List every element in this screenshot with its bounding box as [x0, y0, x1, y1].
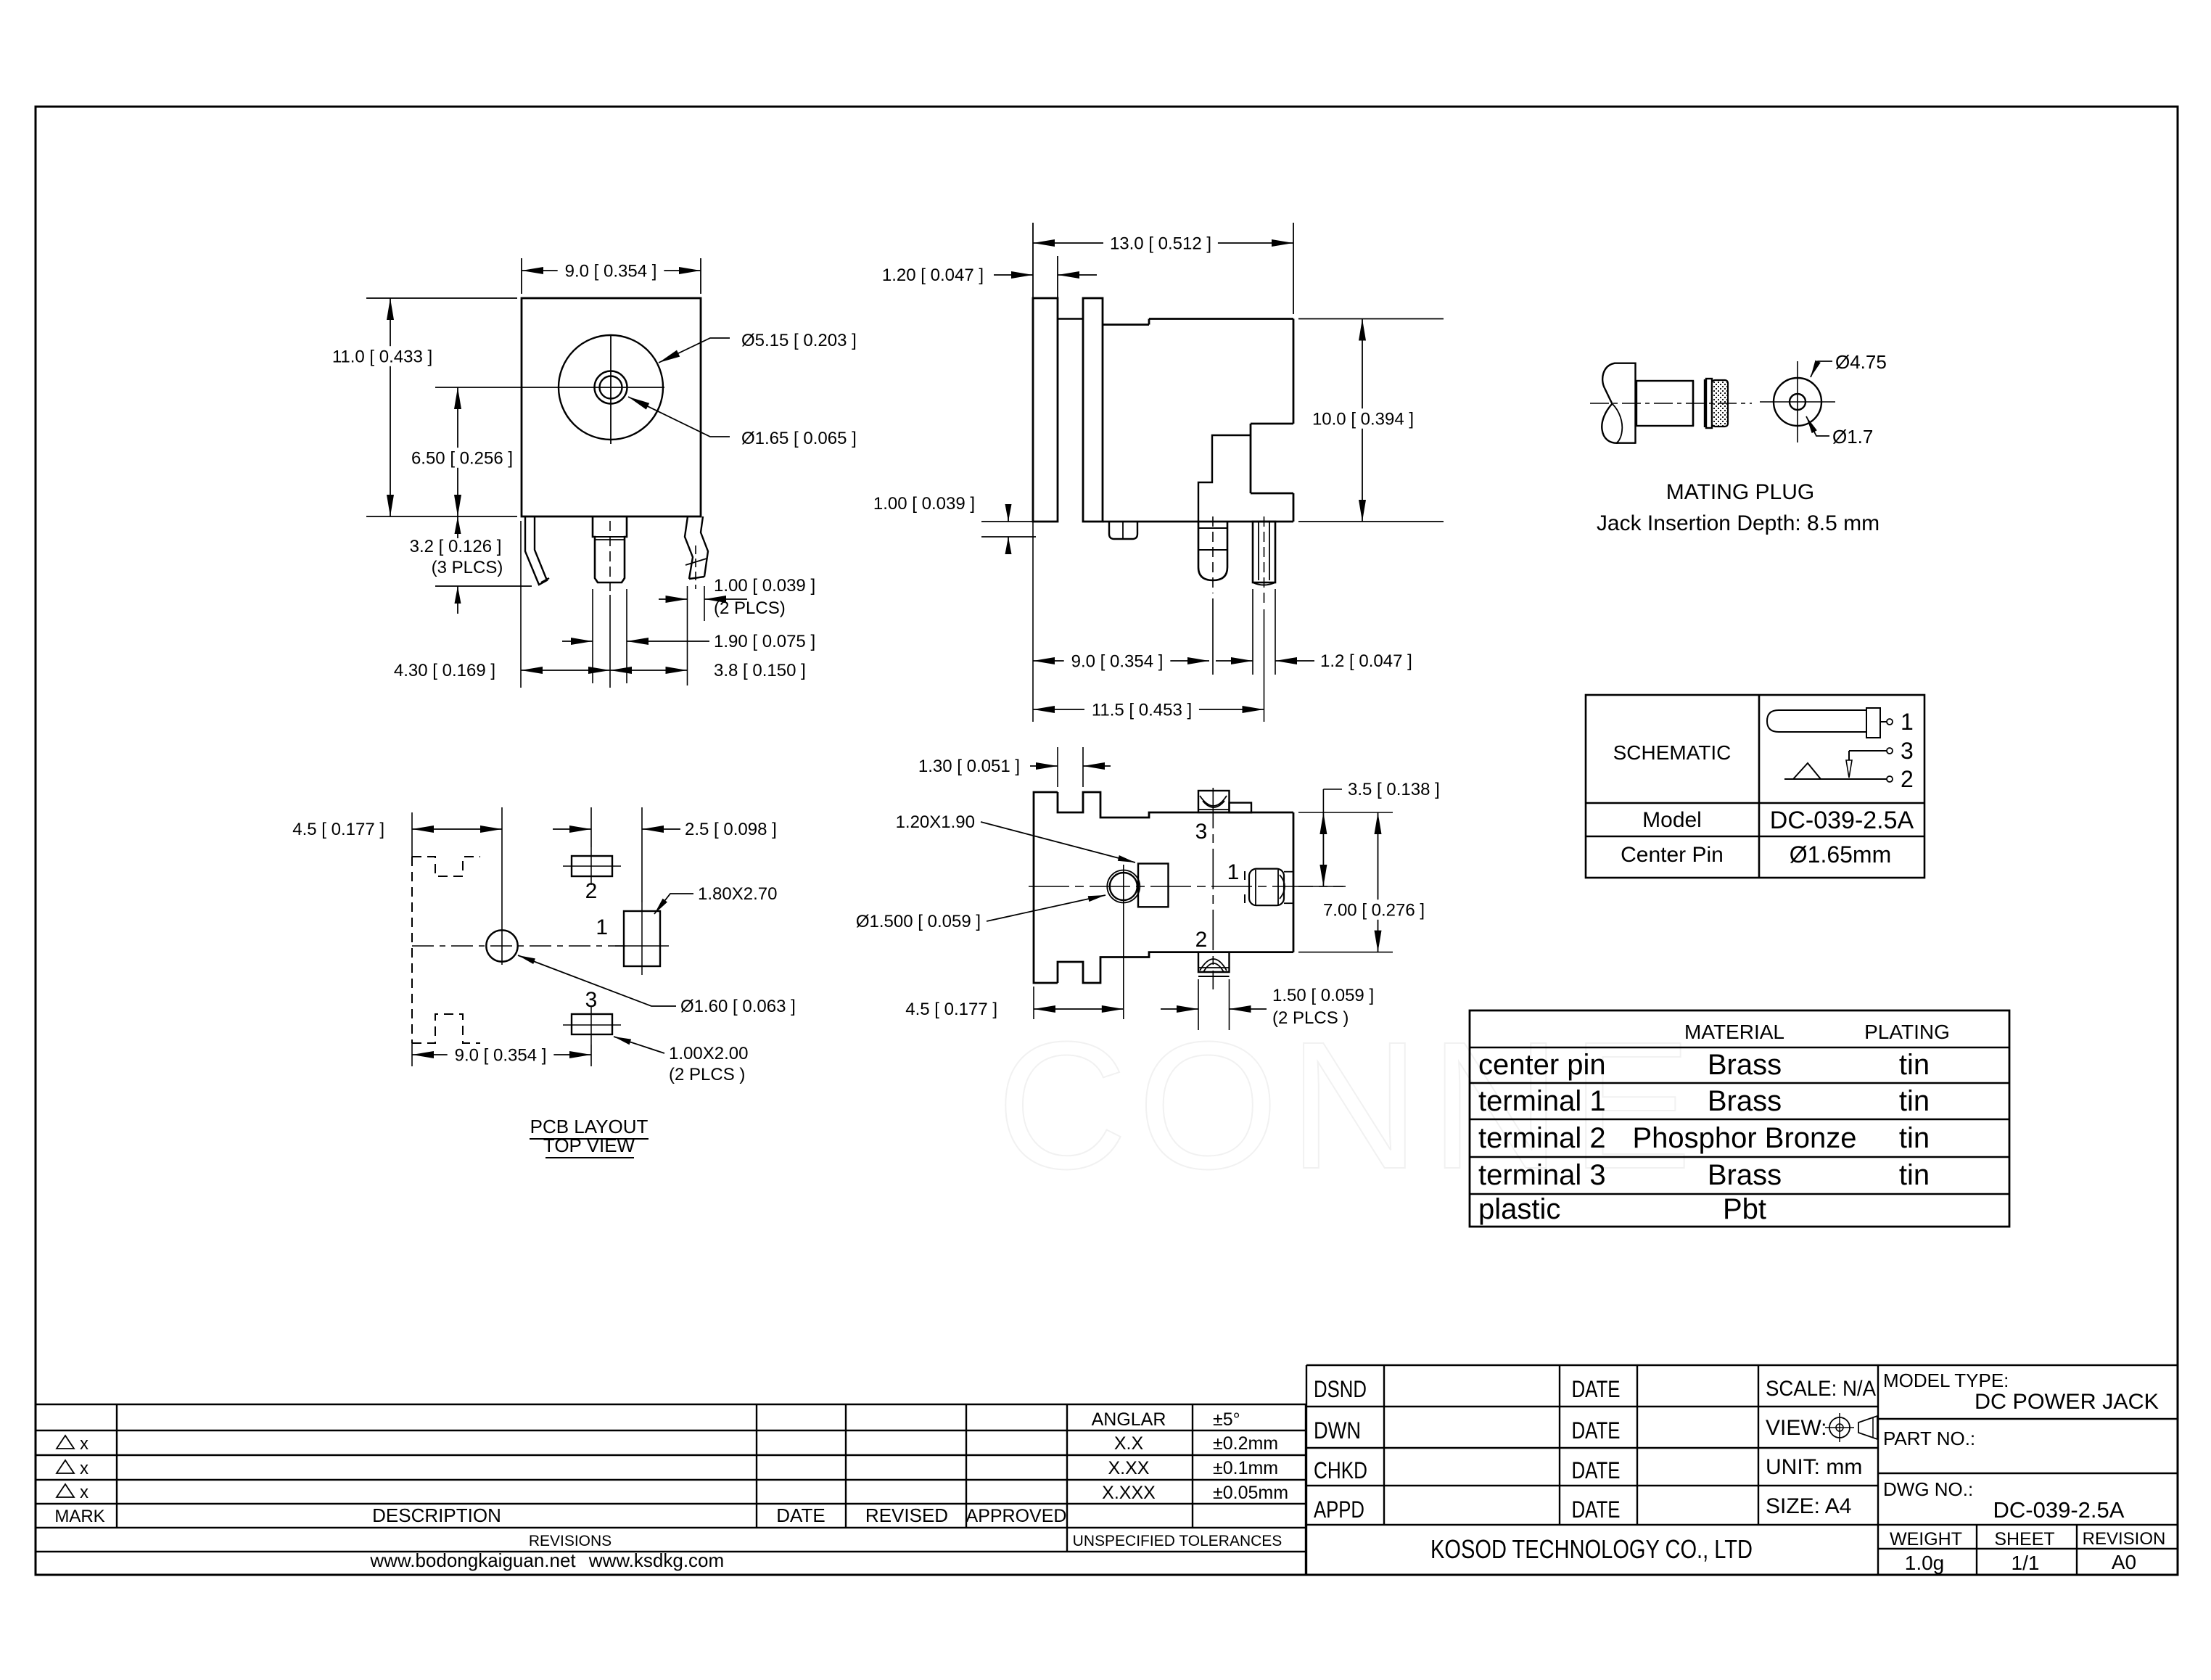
svg-text:3.5 [ 0.138 ]: 3.5 [ 0.138 ]	[1348, 780, 1440, 799]
svg-text:2: 2	[585, 879, 598, 903]
svg-text:www.bodongkaiguan.net: www.bodongkaiguan.net	[369, 1549, 576, 1571]
svg-text:1.20 [ 0.047 ]: 1.20 [ 0.047 ]	[882, 265, 984, 285]
svg-text:Brass: Brass	[1708, 1085, 1782, 1117]
svg-text:1.00X2.00: 1.00X2.00	[669, 1044, 748, 1063]
svg-text:Ø1.500 [ 0.059 ]: Ø1.500 [ 0.059 ]	[856, 912, 981, 931]
svg-text:Ø5.15 [ 0.203 ]: Ø5.15 [ 0.203 ]	[741, 331, 857, 350]
svg-text:MATING PLUG: MATING PLUG	[1666, 480, 1814, 504]
svg-text:13.0 [ 0.512 ]: 13.0 [ 0.512 ]	[1110, 234, 1211, 253]
svg-text:Ø1.60 [ 0.063 ]: Ø1.60 [ 0.063 ]	[680, 997, 796, 1016]
svg-text:x: x	[80, 1434, 88, 1454]
svg-text:CHKD: CHKD	[1314, 1457, 1367, 1483]
svg-text:KOSOD TECHNOLOGY CO., LTD: KOSOD TECHNOLOGY CO., LTD	[1430, 1534, 1753, 1564]
svg-text:4.30 [ 0.169 ]: 4.30 [ 0.169 ]	[394, 661, 495, 680]
svg-text:terminal 2: terminal 2	[1478, 1122, 1606, 1154]
svg-text:DWN: DWN	[1314, 1417, 1361, 1444]
svg-text:Jack Insertion Depth: 8.5 mm: Jack Insertion Depth: 8.5 mm	[1597, 511, 1879, 535]
svg-text:PART NO.:: PART NO.:	[1883, 1428, 1975, 1449]
svg-text:3: 3	[1901, 738, 1914, 764]
svg-text:X.X: X.X	[1114, 1433, 1144, 1454]
svg-text:Ø4.75: Ø4.75	[1835, 351, 1887, 373]
svg-text:1.20X1.90: 1.20X1.90	[896, 812, 975, 832]
svg-text:PLATING: PLATING	[1864, 1021, 1950, 1043]
svg-text:MATERIAL: MATERIAL	[1684, 1021, 1784, 1043]
svg-text:UNSPECIFIED TOLERANCES: UNSPECIFIED TOLERANCES	[1073, 1533, 1282, 1549]
svg-text:X.XXX: X.XXX	[1102, 1483, 1156, 1503]
svg-text:MODEL TYPE:: MODEL TYPE:	[1883, 1370, 2009, 1391]
svg-text:MARK: MARK	[54, 1507, 104, 1526]
svg-text:DESCRIPTION: DESCRIPTION	[372, 1504, 501, 1526]
svg-text:±0.1mm: ±0.1mm	[1213, 1458, 1278, 1478]
svg-text:VIEW:: VIEW:	[1766, 1416, 1827, 1440]
svg-text:DC-039-2.5A: DC-039-2.5A	[1993, 1497, 2125, 1523]
svg-text:ANGLAR: ANGLAR	[1092, 1409, 1166, 1430]
svg-text:tin: tin	[1899, 1122, 1930, 1154]
svg-text:1.2 [ 0.047 ]: 1.2 [ 0.047 ]	[1320, 651, 1412, 671]
svg-text:±0.2mm: ±0.2mm	[1213, 1433, 1278, 1454]
svg-text:x: x	[80, 1459, 88, 1478]
svg-text:APPD: APPD	[1314, 1496, 1364, 1523]
svg-text:DATE: DATE	[776, 1504, 825, 1526]
svg-text:Brass: Brass	[1708, 1049, 1782, 1081]
svg-text:tin: tin	[1899, 1159, 1930, 1191]
svg-text:TOP VIEW: TOP VIEW	[543, 1135, 635, 1156]
svg-text:3.8 [ 0.150 ]: 3.8 [ 0.150 ]	[714, 661, 806, 680]
svg-text:(2 PLCS ): (2 PLCS )	[669, 1065, 745, 1084]
svg-text:1: 1	[1227, 860, 1240, 884]
svg-text:SIZE: A4: SIZE: A4	[1766, 1494, 1851, 1518]
svg-text:6.50 [ 0.256 ]: 6.50 [ 0.256 ]	[411, 448, 513, 468]
svg-text:Phosphor Bronze: Phosphor Bronze	[1632, 1122, 1856, 1154]
svg-text:(2 PLCS): (2 PLCS)	[714, 598, 786, 618]
svg-text:Ø1.65 [ 0.065 ]: Ø1.65 [ 0.065 ]	[741, 429, 857, 448]
svg-text:2: 2	[1195, 928, 1208, 952]
svg-text:3: 3	[1195, 820, 1208, 844]
svg-text:1.00 [ 0.039 ]: 1.00 [ 0.039 ]	[714, 576, 815, 596]
svg-text:SCHEMATIC: SCHEMATIC	[1613, 741, 1732, 764]
svg-text:1.50 [ 0.059 ]: 1.50 [ 0.059 ]	[1272, 986, 1374, 1005]
svg-text:1.80X2.70: 1.80X2.70	[698, 884, 777, 904]
svg-text:terminal 3: terminal 3	[1478, 1159, 1606, 1191]
svg-text:DWG NO.:: DWG NO.:	[1883, 1478, 1973, 1500]
svg-text:WEIGHT: WEIGHT	[1890, 1529, 1962, 1549]
svg-text:DC POWER JACK: DC POWER JACK	[1975, 1390, 2159, 1414]
svg-text:9.0 [ 0.354 ]: 9.0 [ 0.354 ]	[455, 1045, 547, 1065]
svg-text:tin: tin	[1899, 1049, 1930, 1081]
svg-text:Model: Model	[1642, 808, 1702, 832]
svg-text:Brass: Brass	[1708, 1159, 1782, 1191]
svg-text:REVISED: REVISED	[865, 1504, 948, 1526]
svg-text:±5°: ±5°	[1213, 1409, 1240, 1430]
svg-text:Pbt: Pbt	[1723, 1193, 1766, 1225]
svg-text:4.5 [ 0.177 ]: 4.5 [ 0.177 ]	[905, 1000, 997, 1019]
svg-text:REVISIONS: REVISIONS	[529, 1533, 612, 1549]
svg-text:Ø1.7: Ø1.7	[1832, 426, 1873, 448]
svg-text:(2 PLCS ): (2 PLCS )	[1272, 1008, 1349, 1028]
svg-text:3: 3	[585, 988, 598, 1012]
svg-text:11.0 [ 0.433 ]: 11.0 [ 0.433 ]	[332, 347, 432, 366]
svg-text:Ø1.65mm: Ø1.65mm	[1790, 841, 1891, 868]
svg-text:10.0 [ 0.394 ]: 10.0 [ 0.394 ]	[1312, 409, 1414, 429]
svg-text:REVISION: REVISION	[2083, 1529, 2166, 1549]
svg-text:(3 PLCS): (3 PLCS)	[432, 558, 503, 577]
svg-text:www.ksdkg.com: www.ksdkg.com	[588, 1549, 724, 1571]
svg-text:DATE: DATE	[1572, 1496, 1621, 1523]
svg-text:DATE: DATE	[1572, 1376, 1621, 1402]
svg-text:2.5 [ 0.098 ]: 2.5 [ 0.098 ]	[685, 820, 777, 839]
svg-text:APPROVED: APPROVED	[966, 1506, 1067, 1526]
svg-text:plastic: plastic	[1478, 1193, 1560, 1225]
svg-text:DC-039-2.5A: DC-039-2.5A	[1770, 807, 1914, 834]
svg-text:DSND: DSND	[1314, 1376, 1367, 1402]
svg-text:SCALE: N/A: SCALE: N/A	[1766, 1377, 1876, 1401]
svg-text:1.30 [ 0.051 ]: 1.30 [ 0.051 ]	[918, 757, 1020, 776]
svg-text:DATE: DATE	[1572, 1417, 1621, 1444]
svg-text:2: 2	[1901, 766, 1914, 792]
svg-text:DATE: DATE	[1572, 1457, 1621, 1483]
svg-text:1.00 [ 0.039 ]: 1.00 [ 0.039 ]	[873, 494, 975, 514]
svg-text:1/1: 1/1	[2012, 1552, 2040, 1574]
svg-text:X.XX: X.XX	[1108, 1458, 1150, 1478]
svg-text:11.5 [ 0.453 ]: 11.5 [ 0.453 ]	[1092, 700, 1192, 720]
svg-text:terminal 1: terminal 1	[1478, 1085, 1606, 1117]
svg-text:1: 1	[596, 915, 608, 939]
svg-text:9.0 [ 0.354 ]: 9.0 [ 0.354 ]	[565, 261, 657, 281]
svg-text:Center Pin: Center Pin	[1621, 843, 1724, 867]
svg-text:center pin: center pin	[1478, 1049, 1606, 1081]
svg-text:UNIT: mm: UNIT: mm	[1766, 1455, 1862, 1479]
svg-text:1.0g: 1.0g	[1905, 1552, 1945, 1574]
svg-text:1: 1	[1901, 709, 1914, 735]
svg-text:SHEET: SHEET	[1994, 1529, 2054, 1549]
svg-text:3.2 [ 0.126 ]: 3.2 [ 0.126 ]	[410, 537, 502, 556]
svg-text:±0.05mm: ±0.05mm	[1213, 1483, 1288, 1503]
svg-text:x: x	[80, 1483, 88, 1502]
svg-text:4.5 [ 0.177 ]: 4.5 [ 0.177 ]	[292, 820, 384, 839]
svg-text:9.0 [ 0.354 ]: 9.0 [ 0.354 ]	[1071, 651, 1164, 671]
svg-text:1.90 [ 0.075 ]: 1.90 [ 0.075 ]	[714, 632, 815, 651]
svg-text:A0: A0	[2112, 1551, 2136, 1573]
svg-text:7.00 [ 0.276 ]: 7.00 [ 0.276 ]	[1323, 900, 1425, 920]
svg-text:tin: tin	[1899, 1085, 1930, 1117]
